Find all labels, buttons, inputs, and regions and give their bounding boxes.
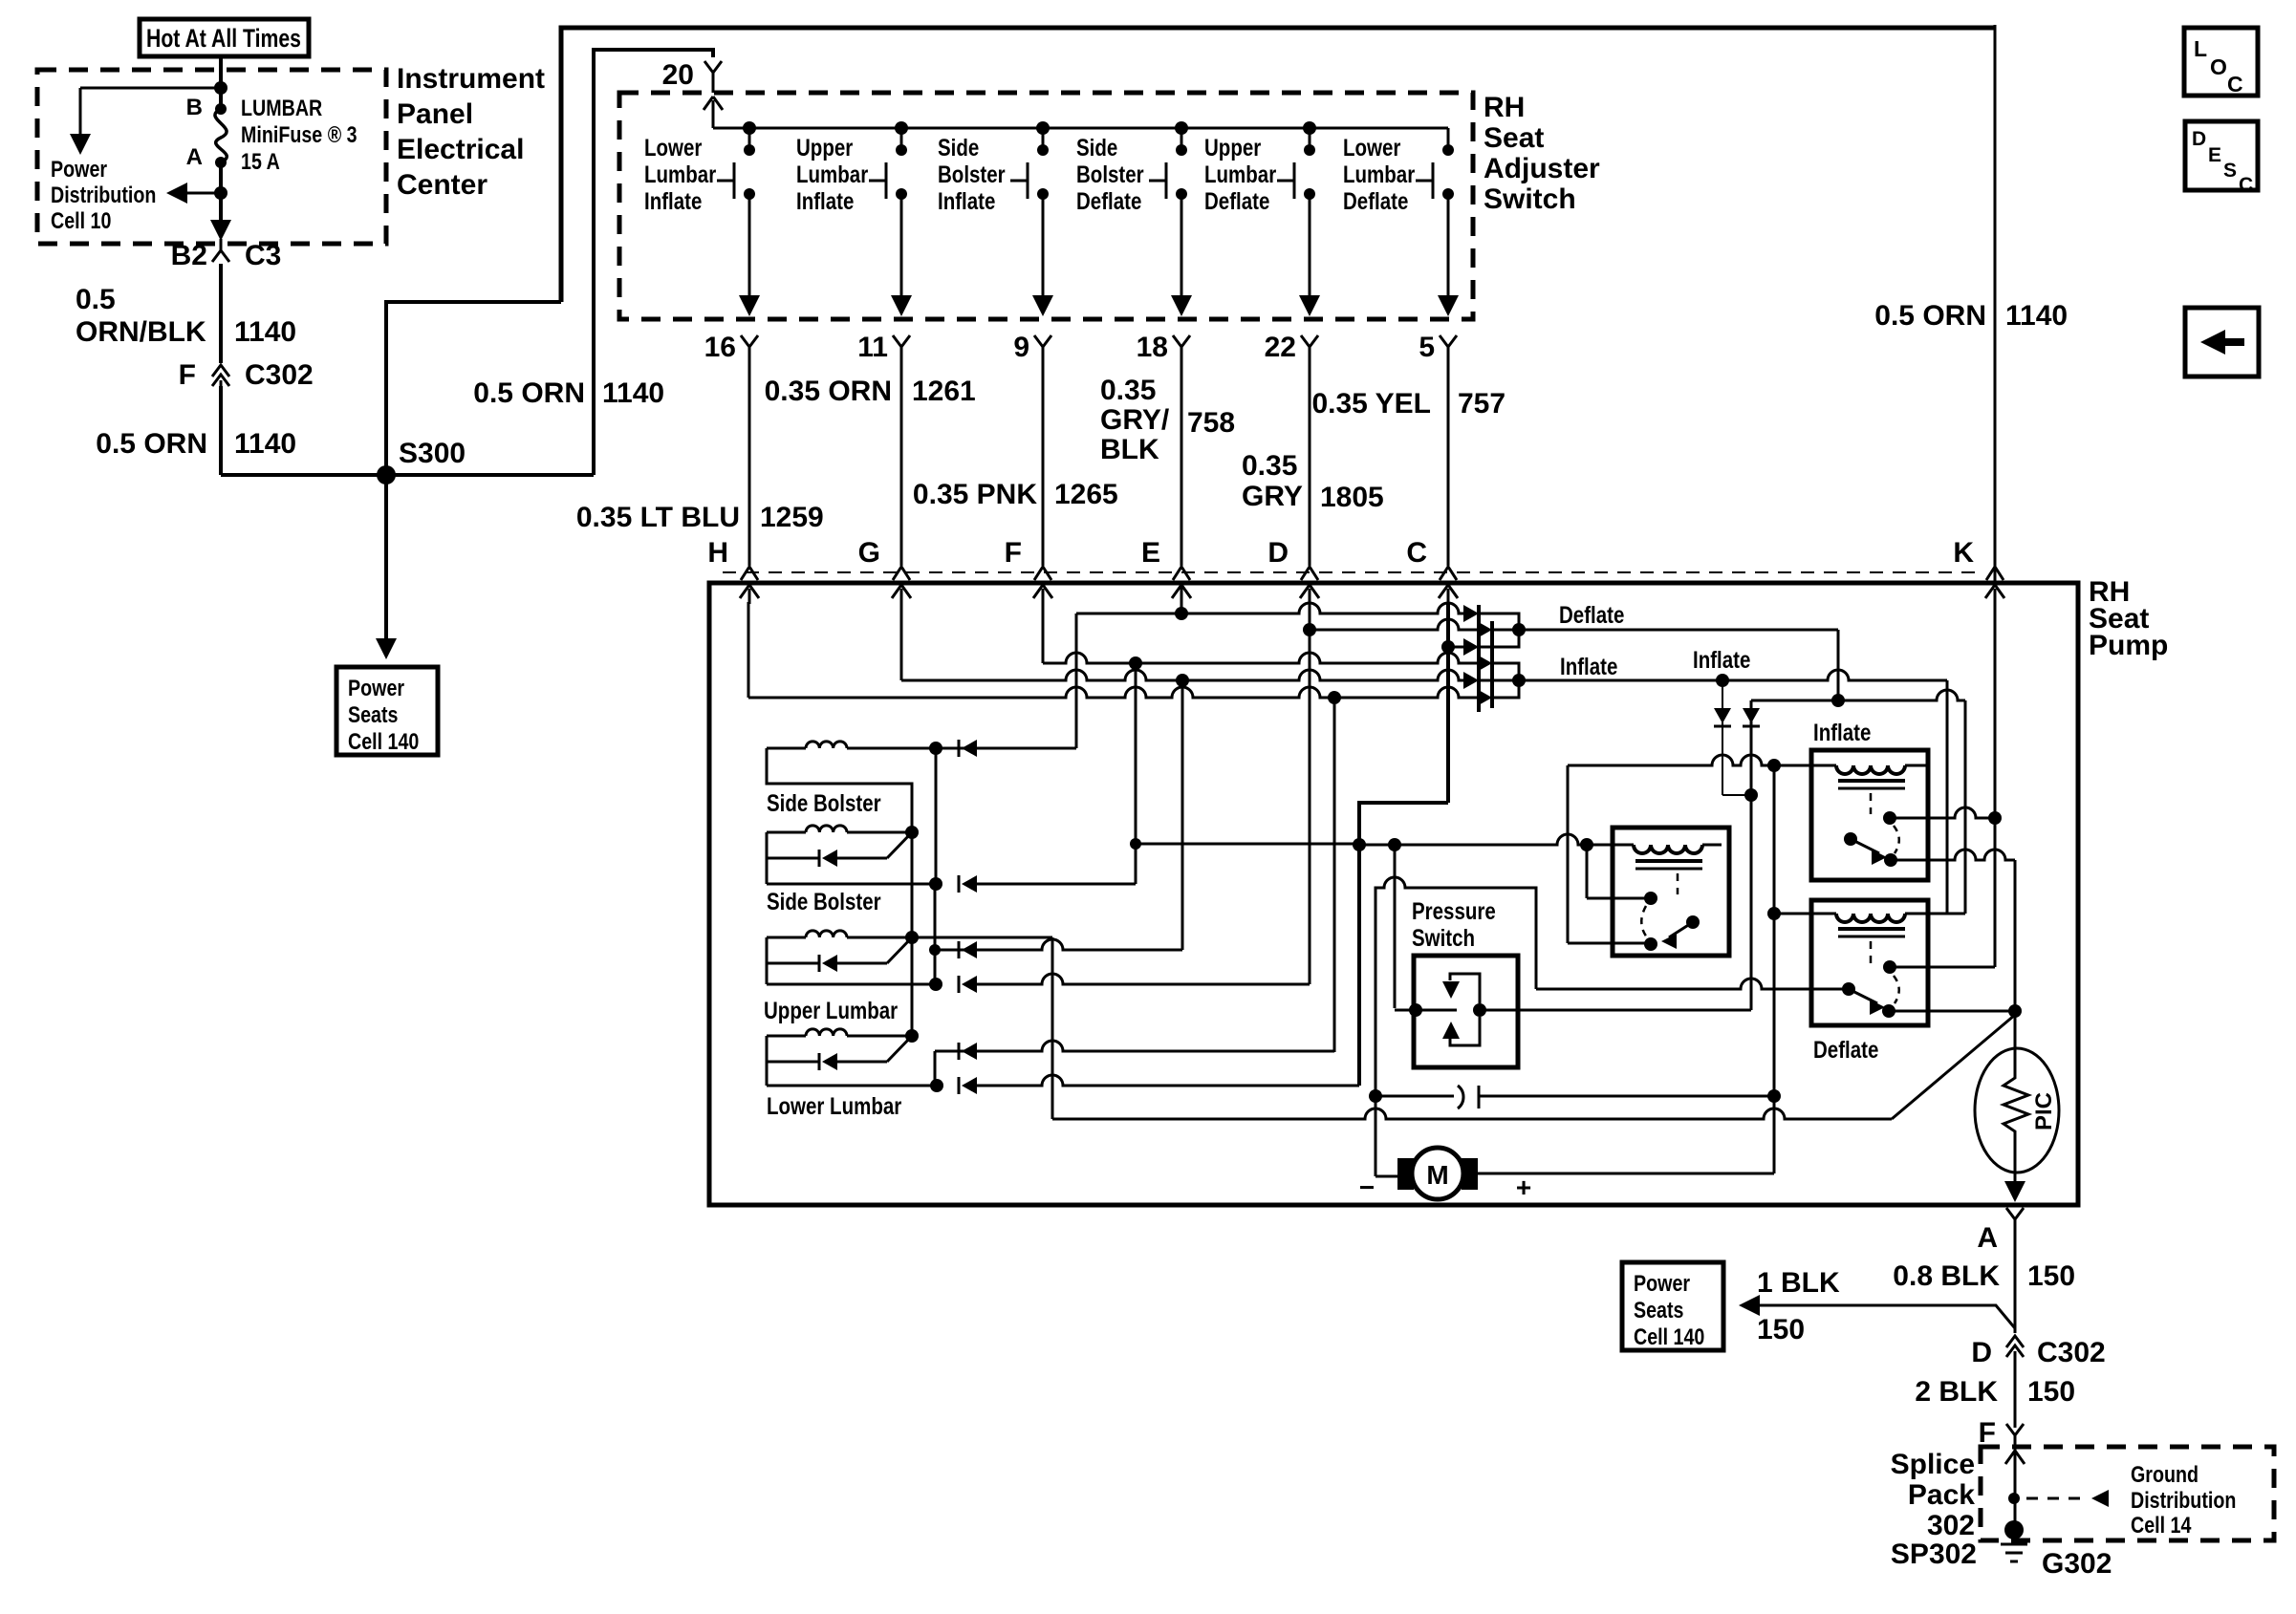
svg-text:C302: C302 [2037, 1337, 2106, 1368]
label Ground Distribution Cell 14 [2131, 1461, 2199, 1487]
arrow pump pin G [900, 589, 903, 604]
node fuse feed junction [214, 81, 227, 95]
svg-text:Pump: Pump [2089, 630, 2168, 661]
label LUMBAR MiniFuse 3 15 A [241, 95, 322, 120]
svg-text:1140: 1140 [234, 428, 296, 460]
wire branch to Power Distribution [80, 87, 221, 90]
svg-text:A: A [1977, 1222, 1998, 1254]
svg-text:H: H [707, 537, 728, 569]
solenoid Lower Lumbar coil row [767, 1035, 806, 1038]
contact Deflate relay upper [1883, 960, 1896, 974]
arrow pump pin H [748, 589, 751, 604]
svg-text:Power: Power [1634, 1270, 1690, 1296]
svg-text:Side: Side [938, 134, 979, 161]
wire x1439 down to motor [1375, 1096, 1377, 1176]
diode row4 to bar1 [1463, 672, 1479, 689]
svg-text:D: D [1267, 537, 1289, 569]
wire Upper Lumbar branch to G [934, 884, 937, 984]
wire Inflate output line [1479, 670, 1947, 680]
svg-text:0.35 LT BLU: 0.35 LT BLU [576, 502, 740, 533]
diode C to bar1 [1463, 638, 1479, 656]
svg-text:Ground: Ground [2131, 1461, 2199, 1487]
svg-text:Side: Side [1076, 134, 1117, 161]
svg-text:F: F [1005, 537, 1022, 569]
core valve driver [1635, 859, 1702, 863]
node fuse lower junction [214, 186, 227, 200]
wire Side Bolster 1 return [767, 748, 912, 832]
svg-text:Inflate: Inflate [938, 187, 995, 214]
connector pin 9 [1034, 335, 1051, 358]
svg-text:302: 302 [1927, 1510, 1975, 1541]
wire D shaft down [1309, 602, 1311, 630]
connector pin 16 [741, 335, 758, 358]
switch arm valve driver [1669, 922, 1693, 937]
switch Side Bolster Inflate [1036, 121, 1050, 135]
arrow pump pin E [1180, 589, 1183, 604]
svg-text:150: 150 [2027, 1376, 2075, 1408]
contact valve driver upper [1644, 892, 1657, 905]
wire diagonal to main node [1892, 1015, 2015, 1119]
svg-text:F: F [179, 359, 196, 391]
svg-text:Adjuster: Adjuster [1484, 153, 1600, 184]
connector pin 11 [893, 335, 910, 358]
wire Lower Lumbar branch to H [934, 1051, 937, 1086]
wire Inflate relay lower contact [1891, 850, 2015, 860]
svg-text:PIC: PIC [2031, 1092, 2057, 1130]
svg-text:Deflate: Deflate [1813, 1036, 1878, 1063]
arrow into Power Seats [376, 638, 397, 659]
svg-text:GRY/: GRY/ [1100, 404, 1170, 436]
wire Lower Lumbar left edge [766, 1036, 769, 1086]
svg-text:Seats: Seats [348, 701, 399, 727]
svg-text:22: 22 [1265, 332, 1296, 363]
svg-text:Bolster: Bolster [938, 161, 1006, 187]
wire S300 row [221, 473, 594, 477]
label Inflate top [1560, 653, 1617, 679]
wire motor right to x1856 [1478, 1173, 1774, 1175]
svg-text:757: 757 [1458, 388, 1505, 420]
svg-text:Lower Lumbar: Lower Lumbar [767, 1092, 901, 1119]
wire F to S300 0.5 ORN 1140 [219, 386, 223, 475]
label Inflate top second [1693, 646, 1750, 673]
diode down on x1802 [1722, 680, 1723, 795]
arrow pump pin F [1042, 589, 1045, 604]
wire Side Bolster 2 bottom row [767, 883, 936, 886]
svg-text:E: E [1141, 537, 1160, 569]
svg-text:Cell 14: Cell 14 [2131, 1512, 2192, 1538]
connector pin F lower [2006, 1424, 2024, 1447]
core Inflate relay [1838, 779, 1905, 783]
wire Upper Lumbar left edge [766, 937, 769, 984]
wire x1856 node column [1773, 765, 1776, 1173]
wire row1 Deflate bus from E [1076, 603, 1466, 613]
connector pin D [1301, 567, 1318, 580]
solenoid Upper Lumbar coil row [767, 936, 806, 939]
svg-text:Cell 10: Cell 10 [51, 207, 111, 233]
svg-text:Instrument: Instrument [397, 63, 545, 95]
svg-text:Deflate: Deflate [1343, 187, 1408, 214]
diode Side Bolster 1 [958, 740, 961, 757]
svg-text:1 BLK: 1 BLK [1757, 1267, 1840, 1299]
wire valve driver coil feed from C path [1359, 834, 1620, 845]
wire pin 20 into switch [712, 80, 715, 93]
connector pin H [741, 567, 758, 580]
label Side Bolster 1 [767, 789, 881, 816]
switch Lower Lumbar Deflate [1447, 128, 1450, 150]
wire column x979 pair A [935, 748, 938, 884]
svg-text:G: G [858, 537, 880, 569]
wire pin20 feed riser x621 [594, 50, 713, 475]
coil Deflate relay [1836, 914, 1905, 922]
svg-text:0.35 PNK: 0.35 PNK [913, 479, 1037, 510]
wire Deflate output line [1492, 629, 1838, 632]
resistor PIC zigzag [2004, 1011, 2028, 1185]
svg-text:5: 5 [1419, 332, 1435, 363]
svg-text:0.5: 0.5 [76, 284, 116, 315]
svg-text:0.8 BLK: 0.8 BLK [1893, 1260, 2000, 1292]
wire row4 from G [901, 670, 1466, 680]
connector pin E [1173, 567, 1190, 580]
box back arrow [2185, 308, 2259, 377]
label Deflate relay [1813, 1036, 1878, 1063]
label Deflate top [1559, 601, 1624, 628]
wire motor left feed [1375, 1175, 1397, 1178]
arrow pump pin C [1447, 589, 1450, 604]
diode row3 to bar2 [1477, 655, 1492, 672]
wire Deflate relay lower contact to main [1889, 1010, 2015, 1013]
arrow splice pack feed [2014, 1454, 2017, 1475]
connector pin K [1986, 567, 2004, 580]
wire valve driver lower contact feed x1640 [1567, 765, 1570, 943]
svg-text:Bolster: Bolster [1076, 161, 1144, 187]
contact Inflate relay lower [1884, 853, 1897, 867]
wire Lower Lumbar bottom row to C path [767, 1085, 937, 1087]
wire pressure switch left feed x1459 [1394, 845, 1397, 1008]
wire y1171 to diagonal [1052, 1108, 1892, 1119]
contact Inflate relay upper [1883, 811, 1896, 825]
connector pin A [2006, 1208, 2024, 1231]
svg-text:Pressure: Pressure [1412, 897, 1496, 924]
svg-text:Hot At All Times: Hot At All Times [146, 24, 301, 53]
wire valve driver upper contact feed [1586, 845, 1589, 898]
svg-text:15 A: 15 A [241, 148, 280, 174]
svg-text:1140: 1140 [602, 377, 664, 409]
dashed box Instrument Panel Electrical Center [37, 70, 386, 244]
svg-text:B2: B2 [171, 240, 207, 271]
svg-text:D: D [1971, 1337, 1992, 1368]
label Inflate relay [1813, 719, 1871, 745]
svg-text:Inflate: Inflate [1693, 646, 1750, 673]
svg-text:Center: Center [397, 169, 487, 201]
wire Side Bolster 2 left edge [766, 832, 769, 884]
dashed link Ground Distribution [2026, 1497, 2090, 1500]
solenoid Side Bolster 1 coil row [767, 747, 806, 750]
wire S300 down to Power Seats [384, 475, 388, 638]
motor M [1397, 1158, 1414, 1190]
contact Deflate relay common [1842, 982, 1855, 996]
pressure switch lower arrow [1450, 1017, 1480, 1045]
relay Deflate box [1811, 900, 1928, 1025]
svg-text:GRY: GRY [1242, 481, 1303, 512]
diode down on x1832 [1743, 708, 1760, 723]
wire Inflate line corner down x2037 [1946, 680, 1949, 914]
relay valve driver box [1613, 828, 1729, 956]
svg-text:F: F [1979, 1417, 1996, 1449]
svg-text:150: 150 [2027, 1260, 2075, 1292]
svg-text:−: − [1359, 1173, 1375, 1202]
box Hot At All Times [140, 19, 309, 56]
svg-text:18: 18 [1137, 332, 1168, 363]
arrow pump pin K [1994, 589, 1997, 604]
lever Upper Lumbar [887, 937, 912, 963]
svg-text:MiniFuse ® 3: MiniFuse ® 3 [241, 121, 357, 147]
connector pin 18 [1173, 335, 1190, 358]
svg-text:Lower: Lower [1343, 134, 1400, 161]
switch Lower Lumbar Inflate [743, 121, 756, 135]
contact valve driver lower [1644, 937, 1657, 951]
arrow switch feed up [712, 100, 715, 127]
wire diode link top pair [1479, 613, 1519, 647]
svg-text:Lumbar: Lumbar [644, 161, 716, 187]
diode row Upper Lumbar [767, 962, 819, 965]
svg-text:1140: 1140 [2005, 300, 2068, 332]
svg-text:Seats: Seats [1634, 1297, 1684, 1323]
svg-text:L: L [2194, 36, 2207, 61]
svg-text:758: 758 [1187, 407, 1235, 439]
capacitor symbol [1458, 1086, 1463, 1108]
resistor PIC oval [1975, 1048, 2059, 1173]
wire fuse feed vertical x231 [219, 56, 223, 107]
dashed link Inflate relay [1870, 793, 1873, 814]
coil Inflate relay [1836, 765, 1905, 774]
svg-text:G302: G302 [2042, 1548, 2112, 1580]
svg-text:Deflate: Deflate [1204, 187, 1269, 214]
svg-text:Side Bolster: Side Bolster [767, 888, 881, 915]
wire row3 from F [1043, 653, 1480, 663]
svg-text:K: K [1953, 537, 1974, 569]
lever Lower Lumbar [887, 1036, 912, 1062]
switch arm Inflate relay [1851, 839, 1879, 853]
diode row1 to bar1 [1463, 605, 1479, 622]
svg-text:C: C [1406, 537, 1427, 569]
dashed box Splice Pack 302 [1981, 1447, 2274, 1540]
svg-text:16: 16 [704, 332, 736, 363]
svg-text:Power: Power [51, 156, 107, 182]
svg-text:Lumbar: Lumbar [796, 161, 868, 187]
box Power Seats Cell 140 lower [1622, 1262, 1723, 1350]
svg-text:20: 20 [662, 59, 694, 91]
svg-text:1265: 1265 [1054, 479, 1118, 510]
contact pressure switch right [1473, 1003, 1486, 1017]
diode row5 to bar2 [1477, 689, 1492, 706]
wire Inflate relay coil feed [1568, 755, 1836, 765]
svg-text:Lumbar: Lumbar [1343, 161, 1415, 187]
connector pin C [1440, 567, 1457, 580]
svg-text:Cell 140: Cell 140 [1634, 1323, 1704, 1349]
wire 1 BLK 150 branch [1750, 1305, 2015, 1328]
box DESC [2185, 121, 2258, 190]
svg-text:0.5 ORN: 0.5 ORN [1874, 300, 1986, 332]
svg-text:E: E [2208, 144, 2221, 166]
svg-text:1259: 1259 [760, 502, 824, 533]
svg-text:1805: 1805 [1320, 482, 1384, 513]
svg-text:0.5 ORN: 0.5 ORN [473, 377, 585, 409]
wire Upper Lumbar bottom row to D [767, 983, 936, 986]
diode Side Bolster 2 bottom [958, 875, 961, 893]
svg-text:150: 150 [1757, 1314, 1805, 1345]
svg-text:Lower: Lower [644, 134, 702, 161]
wire B2 to C302 0.5 ORN/BLK 1140 [219, 264, 223, 363]
label Power Distribution Cell 10 [51, 156, 107, 182]
relay Inflate box [1811, 750, 1928, 880]
svg-text:Pack: Pack [1908, 1479, 1975, 1511]
svg-text:C302: C302 [245, 359, 314, 391]
svg-text:2 BLK: 2 BLK [1915, 1376, 1998, 1408]
connector pin 22 [1301, 335, 1318, 358]
svg-text:0.35 ORN: 0.35 ORN [765, 376, 892, 407]
node splice junction [2008, 1493, 2020, 1504]
svg-text:Deflate: Deflate [1076, 187, 1141, 214]
switch Upper Lumbar Deflate [1303, 121, 1316, 135]
svg-text:Switch: Switch [1484, 183, 1576, 215]
svg-text:0.35: 0.35 [1100, 375, 1156, 406]
diode row2 to bar2 [1477, 621, 1492, 638]
svg-text:Distribution: Distribution [51, 182, 156, 207]
connector C3 pin B2 [212, 239, 229, 262]
svg-text:9: 9 [1013, 332, 1029, 363]
wire into splice pack [2014, 1445, 2017, 1529]
svg-text:Power: Power [348, 675, 404, 700]
node S300 splice [377, 465, 396, 484]
core Deflate relay [1838, 927, 1905, 931]
fuse LUMBAR MiniFuse 3 15A [215, 103, 227, 115]
contact pressure switch left [1409, 1003, 1422, 1017]
svg-text:D: D [2192, 128, 2206, 150]
connector C302 pin D [2006, 1336, 2024, 1357]
lever Side Bolster 2 [887, 832, 912, 858]
wire pressure switch common to Deflate relay [1536, 979, 1849, 989]
box Power Seats Cell 140 [336, 667, 438, 755]
svg-text:0.35 YEL: 0.35 YEL [1311, 388, 1431, 420]
contact Inflate relay common [1844, 832, 1857, 846]
dashed link Deflate relay [1870, 941, 1873, 963]
diode row Lower Lumbar [767, 1061, 819, 1064]
svg-text:+: + [1516, 1173, 1531, 1202]
wire riser from top feed to S300 via x404 [386, 302, 561, 475]
arrow pump pin D [1309, 589, 1311, 604]
contact valve driver right [1686, 915, 1700, 929]
connector pin 20 [704, 61, 722, 84]
svg-text:Inflate: Inflate [644, 187, 702, 214]
svg-text:Distribution: Distribution [2131, 1487, 2236, 1513]
svg-text:Upper Lumbar: Upper Lumbar [764, 997, 898, 1023]
wire top feed 0.5 ORN [561, 28, 1995, 302]
wire x1832 branch [1750, 700, 1753, 1010]
coil valve driver [1634, 845, 1702, 853]
svg-text:S300: S300 [399, 438, 466, 469]
svg-text:ORN/BLK: ORN/BLK [76, 316, 206, 348]
svg-text:Lumbar: Lumbar [1204, 161, 1276, 187]
label Pressure Switch [1412, 897, 1496, 924]
svg-text:Upper: Upper [1204, 134, 1261, 161]
label Lower Lumbar [767, 1092, 901, 1119]
svg-text:Seat: Seat [1484, 122, 1544, 154]
wire diode link bottom pair [1492, 663, 1519, 698]
svg-text:1140: 1140 [234, 316, 296, 348]
svg-text:C: C [2239, 174, 2253, 196]
svg-text:0.5 ORN: 0.5 ORN [96, 428, 207, 460]
svg-text:Splice: Splice [1891, 1449, 1975, 1480]
connector pin 5 [1440, 335, 1457, 358]
wire 2 BLK 150 [2014, 1357, 2017, 1428]
box pressure switch inner [1414, 956, 1518, 1067]
wire fuse output [219, 162, 223, 226]
arrow down to Power Distribution [79, 88, 82, 134]
svg-text:O: O [2210, 54, 2227, 79]
diode bar column 2 [1490, 621, 1494, 708]
svg-text:Deflate: Deflate [1559, 601, 1624, 628]
switch Side Bolster Deflate [1175, 121, 1188, 135]
connector C302 pin F [212, 365, 229, 386]
svg-text:0.35: 0.35 [1242, 450, 1297, 482]
box LOC [2184, 28, 2258, 96]
svg-text:Inflate: Inflate [1813, 719, 1871, 745]
label Upper Lumbar [764, 997, 898, 1023]
wire y733 link [1751, 690, 1965, 700]
arrow to Power Seats cell [1739, 1295, 1760, 1316]
wire y733 corner down x2056 [1964, 700, 1967, 914]
svg-text:S: S [2223, 160, 2237, 182]
pressure switch upper arrow [1450, 974, 1480, 1003]
wire C path elbow [1359, 803, 1448, 1086]
svg-text:1261: 1261 [912, 376, 976, 407]
svg-text:11: 11 [857, 332, 888, 363]
switch arm Deflate relay [1849, 989, 1877, 1003]
ground G302 [2004, 1520, 2024, 1539]
svg-text:C3: C3 [245, 240, 281, 271]
arrow fuse output into connector [210, 220, 231, 241]
svg-text:Switch: Switch [1412, 924, 1475, 951]
diode row Side Bolster 2 [767, 857, 819, 860]
solenoid Side Bolster 2 coil row [767, 831, 806, 834]
wire 0.8 BLK 150 [2014, 1229, 2017, 1333]
contact Deflate relay lower [1882, 1004, 1895, 1018]
wire x1101 from Upper Lumbar coil [1051, 937, 1054, 1119]
wire C shaft down [1446, 602, 1450, 803]
wire row5 from H [748, 687, 1480, 698]
svg-text:Electrical: Electrical [397, 134, 524, 165]
arrow left Power Distribution tap [178, 192, 221, 195]
connector line C (thin dashed) [723, 571, 1983, 573]
wire pressure switch frame [1375, 877, 1536, 1096]
wire K feed [1994, 602, 1997, 967]
svg-text:Upper: Upper [796, 134, 853, 161]
svg-text:C: C [2227, 72, 2243, 97]
wire row2 from D [1310, 619, 1480, 630]
arrow main ground line to pin A [2004, 1181, 2025, 1202]
wire Deflate relay coil line [1774, 913, 1836, 915]
diode bar column 1 [1477, 605, 1481, 712]
svg-text:B: B [186, 95, 203, 120]
svg-text:Side Bolster: Side Bolster [767, 789, 881, 816]
svg-text:Inflate: Inflate [796, 187, 854, 214]
dashed link valve driver [1677, 873, 1679, 894]
wire K drop 0.5 ORN 1140 [1994, 25, 1997, 583]
svg-text:Cell 140: Cell 140 [348, 728, 419, 754]
label Side Bolster 2 [767, 888, 881, 915]
dashed box RH Seat Adjuster Switch [619, 93, 1473, 319]
svg-text:Panel: Panel [397, 98, 473, 130]
